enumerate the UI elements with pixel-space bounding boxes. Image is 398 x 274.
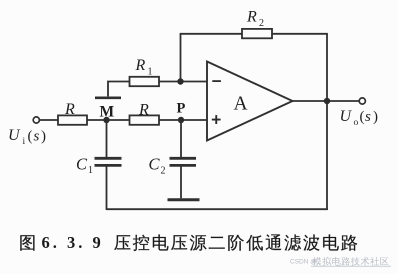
- svg-text:U: U: [8, 127, 21, 144]
- input terminal Ui: [33, 117, 39, 123]
- wire: second R to node P to op-amp + input: [159, 119, 207, 121]
- resistor R1: [130, 77, 160, 86]
- wire: R1 left lead with stub down to ground: [108, 82, 130, 97]
- watermark CSDN: [290, 257, 391, 267]
- output terminal Uo: [359, 98, 365, 104]
- wire: node P down to C2: [180, 120, 182, 158]
- caption: figure title 压控电压源二阶低通滤波电路: [114, 234, 357, 251]
- svg-text:R: R: [135, 57, 146, 74]
- wire: node M down to C1: [106, 120, 108, 158]
- svg-text:R: R: [64, 101, 75, 118]
- wire: inverting node up to feedback line: [180, 34, 182, 82]
- wire: op-amp output to output terminal: [293, 100, 359, 102]
- node: output junction dot: [324, 98, 330, 104]
- svg-text:(: (: [360, 109, 365, 125]
- resistor R (second): [130, 115, 160, 124]
- resistor R (input): [58, 115, 87, 124]
- svg-text:M: M: [100, 104, 115, 121]
- wire: R2 to right vertical: [272, 33, 328, 35]
- resistor R2: [242, 29, 272, 38]
- svg-text:R: R: [138, 102, 149, 119]
- wire: bottom feedback rail: [107, 208, 328, 210]
- op-amp A triangle: [207, 62, 293, 141]
- svg-text:o: o: [354, 118, 359, 128]
- capacitor C2: [170, 157, 197, 160]
- svg-text:A: A: [234, 94, 248, 115]
- caption: figure number 图 6.3.9: [20, 233, 103, 252]
- op-amp minus sign: [212, 80, 221, 82]
- wire: C2 bottom lead to ground: [180, 167, 182, 199]
- svg-text:R: R: [246, 9, 257, 26]
- wire: right vertical, output node down to bottom rail: [326, 101, 328, 210]
- wire: feedback line left of R2: [180, 33, 242, 35]
- ground bar below C2: [168, 198, 200, 201]
- node P junction dot: [178, 117, 184, 123]
- wire: first R to node M to second R: [87, 119, 129, 121]
- ground bar near node M: [95, 97, 121, 100]
- svg-text:P: P: [177, 101, 186, 117]
- svg-text:1: 1: [88, 165, 93, 176]
- svg-text:): ): [41, 129, 46, 145]
- op-amp plus sign: [212, 119, 221, 121]
- node M junction dot: [103, 117, 109, 123]
- svg-text:6. 3. 9: 6. 3. 9: [42, 233, 104, 252]
- wire: C1 bottom lead to rail: [106, 167, 108, 211]
- svg-text:C: C: [76, 155, 88, 174]
- svg-text:i: i: [23, 137, 26, 147]
- capacitor C1: [95, 157, 122, 160]
- svg-text:2: 2: [161, 166, 166, 177]
- svg-text:U: U: [340, 108, 353, 125]
- svg-text:s: s: [365, 109, 371, 125]
- svg-text:C: C: [149, 155, 161, 174]
- wire: right vertical, feedback line down to output node: [326, 34, 328, 102]
- wire: R1 to op-amp inverting input: [159, 81, 207, 83]
- wire: input terminal to first R: [40, 119, 59, 121]
- svg-text:s: s: [34, 129, 40, 145]
- svg-text:2: 2: [259, 18, 264, 29]
- svg-text:(: (: [28, 129, 33, 145]
- svg-text:): ): [373, 109, 378, 125]
- svg-text:1: 1: [148, 67, 153, 78]
- node: inverting input junction dot: [177, 78, 183, 84]
